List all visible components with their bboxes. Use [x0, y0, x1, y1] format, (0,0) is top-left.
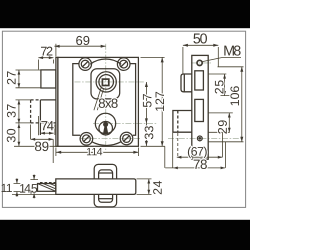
- hub boss: [91, 69, 120, 99]
- text 89: [35, 142, 48, 152]
- 127 arrows: [161, 57, 164, 62]
- dim 67 left dashed extension: [177, 133, 179, 157]
- 24 arrows: [147, 179, 150, 184]
- 114 arrows: [56, 151, 61, 154]
- bottom screw right: [123, 135, 131, 143]
- lock case outer rectangle: [58, 57, 138, 146]
- top screw boss right: [117, 58, 130, 71]
- deadbolt thrown position dashed: [31, 100, 41, 123]
- bottom screw left: [83, 135, 91, 143]
- latch face line: [183, 74, 185, 92]
- bolt tip hatching: [44, 184, 56, 189]
- text M8: [224, 46, 240, 56]
- dim 78 line: [165, 133, 225, 168]
- knob inner top line: [99, 172, 113, 174]
- dim 14.5 ticks: [12, 175, 56, 199]
- side plate: [192, 55, 208, 159]
- lower cutout: [195, 99, 204, 121]
- dim 11 ticks: [14, 178, 21, 196]
- 50 arrows: [183, 44, 188, 47]
- faceplate edge strip: [56, 57, 58, 146]
- dim 127 line: [141, 57, 165, 167]
- hub inner circle: [99, 75, 114, 90]
- dim 29 line: [208, 113, 233, 132]
- bolt tip bevel diagonal: [38, 184, 56, 191]
- text 33: [145, 126, 154, 139]
- latch bolt front: [41, 70, 56, 88]
- deadbolt face dashed: [177, 111, 179, 133]
- deadbolt front solid edges: [40, 100, 56, 135]
- dim 50 line: [183, 45, 218, 73]
- text 114: [87, 148, 102, 155]
- bolt bar: [56, 179, 136, 195]
- 30 arrows: [18, 123, 21, 128]
- top black bar: [0, 0, 250, 28]
- top screw boss left: [79, 58, 92, 71]
- keyhole horizontal centerline: [93, 122, 157, 124]
- dim 89 line: [31, 125, 54, 164]
- dim 57-33 line: [141, 82, 165, 146]
- dimension texts (as paths): [2, 33, 241, 194]
- bottom screw boss right: [120, 132, 133, 145]
- dim 25 line: [208, 74, 230, 96]
- latch block side: [181, 74, 192, 92]
- text 24: [153, 181, 162, 194]
- spindle square hole 8x8: [102, 79, 108, 85]
- 67 arrows: [177, 156, 182, 159]
- keyhole dark glyph: [103, 122, 108, 127]
- outer frame: [2, 31, 245, 207]
- 74 arrows: [40, 132, 45, 135]
- 33 arrows: [145, 123, 148, 128]
- top screw right: [120, 60, 128, 68]
- 72 arrows: [39, 56, 44, 59]
- dim 69 line: [54, 44, 105, 57]
- M8 screw centerline: [191, 62, 212, 64]
- dim 24 line: [137, 179, 152, 195]
- cylinder screw centerline: [168, 137, 243, 139]
- cylinder inner circle: [99, 121, 113, 135]
- hub outer circle: [96, 72, 116, 92]
- 25 arrows: [223, 74, 226, 79]
- 78 arrows: [173, 167, 178, 170]
- text 37: [7, 104, 16, 117]
- M8 leader: [202, 58, 241, 62]
- 14.5 arrows: [33, 175, 36, 180]
- 57 arrows: [145, 82, 148, 87]
- text 127: [155, 92, 164, 111]
- knob outer: [94, 164, 116, 207]
- dim 30 line: [14, 123, 58, 146]
- bolt tip hidden line dashed: [40, 182, 56, 184]
- 8x8 leader: [94, 87, 104, 110]
- dim 114 line: [56, 148, 138, 157]
- text 25: [215, 80, 224, 93]
- bolt tip outline: [38, 184, 56, 192]
- cover arch over hub: [90, 59, 121, 64]
- bottom screws centerline: [80, 138, 140, 140]
- text 57: [143, 94, 152, 107]
- 29 arrows: [228, 113, 231, 118]
- hub horizontal centerline: [75, 81, 144, 83]
- text 78: [194, 160, 207, 169]
- text 69: [76, 36, 89, 45]
- 69 arrows: [55, 45, 60, 48]
- bottom screw boss left: [80, 133, 93, 146]
- M8 screw hole: [197, 60, 202, 65]
- text 29: [218, 120, 227, 133]
- dim 72 line: [38, 58, 53, 70]
- knob inner bottom line: [99, 198, 113, 200]
- upper cutout: [195, 71, 204, 90]
- 27 arrows: [18, 70, 21, 75]
- cover outline left/right sides: [73, 64, 136, 136]
- deadbolt block side: [173, 111, 192, 133]
- 106 arrows: [240, 67, 243, 72]
- top screw left: [81, 60, 89, 68]
- text 14,5: [20, 184, 37, 194]
- bottom black bar: [0, 220, 250, 250]
- cylinder screw hole: [197, 136, 202, 141]
- 89 arrows: [31, 138, 36, 141]
- text 8x8: [99, 99, 118, 108]
- text 74: [41, 121, 53, 130]
- 37 arrows: [18, 100, 21, 105]
- text 72: [41, 47, 52, 56]
- dim 67 line: [177, 132, 223, 157]
- dim 27 line: [16, 70, 41, 88]
- dim 37 line: [16, 100, 31, 124]
- text 27: [7, 71, 16, 84]
- dim 106 line: [208, 67, 243, 142]
- text 106: [230, 86, 239, 105]
- hub vertical centerline: [105, 44, 107, 150]
- knob inner: [99, 170, 113, 202]
- cover bottom arc: [92, 142, 122, 146]
- text 30: [7, 129, 16, 142]
- text (67): [188, 147, 207, 158]
- 11 arrows: [16, 179, 19, 184]
- text 50: [193, 33, 207, 43]
- text 11: [2, 184, 12, 192]
- keyhole outer circle: [95, 113, 115, 133]
- dim 74 line and 72 shared extension: [39, 116, 55, 135]
